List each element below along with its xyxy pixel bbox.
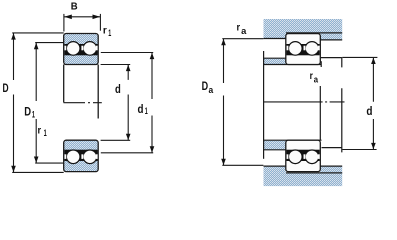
shaft shoulder line right of bearing (bottom) [322,147,342,149]
shaft lower shoulder strip [264,141,286,150]
shaft seat / bore lines [264,64,322,66]
housing lower left shoulder [264,166,286,173]
housing lower shoulder top edges [264,165,287,167]
svg-text:r: r [237,22,241,33]
shaft upper shoulder strip [264,58,286,64]
svg-text:D: D [3,83,9,95]
D dimension [12,32,64,34]
housing upper right shoulder [320,33,342,40]
svg-text:D: D [24,105,31,119]
svg-text:1: 1 [32,110,35,120]
bearing right face line (middle region) [319,86,321,140]
B dimension [63,14,65,32]
svg-text:r: r [38,125,42,136]
housing lower right shoulder [320,166,342,173]
shaft right cut edge [341,57,343,152]
right side face line [97,65,99,119]
svg-text:r: r [310,71,313,82]
svg-text:D: D [202,79,209,93]
lower ball left [289,150,303,164]
lower ball right [305,150,319,164]
svg-text:d: d [138,102,144,116]
upper section outer+inner ring (blue hatched block) [64,34,98,65]
bearing lower section (white rings) [286,140,321,171]
svg-text:d: d [115,82,121,96]
left side face line (bore cylinder) [63,65,65,103]
lower ball right [83,150,97,164]
lower cage notches [287,154,289,159]
d dimension (right) [342,56,377,58]
shaft shoulder line right of bearing (top) [321,57,342,59]
upper cage notches [65,46,67,51]
upper ball left [66,42,80,56]
upper ball right [305,42,319,56]
d dimension [101,64,131,66]
housing upper shoulder bottom edges [264,38,287,40]
svg-text:1: 1 [145,106,148,116]
svg-text:r: r [103,25,107,37]
lower section blue hatched block [64,140,98,171]
bearing upper section (white rings) [286,34,321,65]
svg-text:B: B [71,1,78,12]
lower ball row black band [64,150,97,161]
svg-text:d: d [366,106,372,118]
housing upper bore line [286,32,342,34]
svg-text:1: 1 [108,28,111,38]
upper cage notches [287,46,289,51]
D1 dimension [35,42,64,44]
upper ball row black band [287,44,320,55]
housing lower band [264,173,343,186]
upper ball left [289,42,303,56]
shaft left cut edge [263,51,265,159]
upper ball right [83,42,97,56]
axis centerline [264,101,345,103]
lower cage notches [65,154,67,159]
svg-text:1: 1 [44,128,47,138]
lower ball left [66,150,80,164]
upper ball row black band [64,44,97,55]
housing upper band [264,19,343,33]
d1 dimension [101,52,153,54]
lower ball row black band [287,150,320,161]
housing upper left shoulder [264,33,286,38]
Da dimension [222,38,263,40]
axis centerline [64,102,102,104]
housing lower bore line [286,172,342,174]
tick at inner ring face [320,61,322,67]
